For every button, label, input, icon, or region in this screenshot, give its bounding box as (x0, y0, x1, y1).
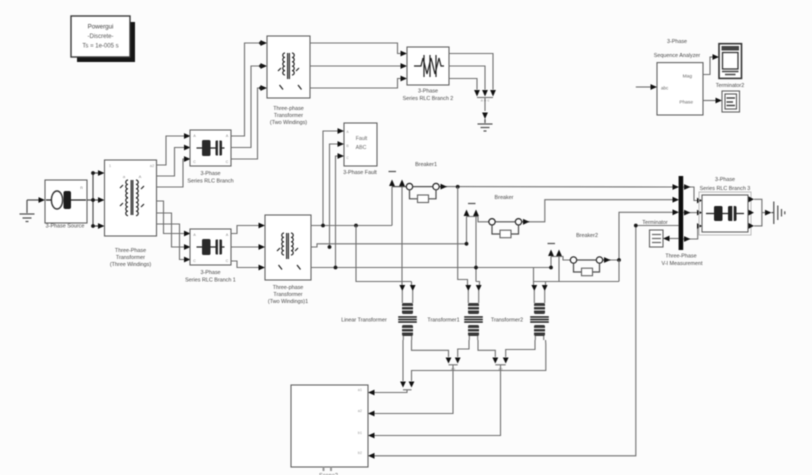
svg-text:(Two Windings): (Two Windings) (270, 120, 307, 126)
wire transformer1 secondary (458, 340, 469, 357)
svg-text:3-Phase: 3-Phase (418, 89, 438, 95)
svg-text:Breaker2: Breaker2 (576, 233, 598, 239)
3-phase fault block (344, 123, 377, 166)
svg-text:Powergui: Powergui (88, 24, 114, 31)
wire transformer to RLC branch 2 (310, 43, 401, 54)
node pair 1 (446, 358, 452, 364)
svg-text:C: C (193, 259, 196, 263)
svg-text:Transformer2: Transformer2 (491, 318, 523, 324)
wire analyzer input (636, 86, 651, 88)
svg-text:(Three Windings): (Three Windings) (110, 262, 152, 268)
wire phase taps to transformer primaries (356, 226, 412, 282)
svg-text:C: C (226, 259, 229, 263)
svg-text:Transformer: Transformer (116, 255, 145, 261)
svg-text:C: C (193, 160, 196, 164)
wire transformer2 secondary (506, 340, 535, 357)
wire phase B (311, 244, 467, 247)
transformer1 (468, 291, 478, 304)
svg-text:a2: a2 (358, 409, 362, 413)
display block (722, 91, 740, 112)
svg-text:a1: a1 (358, 388, 362, 392)
powergui block shadow (77, 22, 135, 62)
svg-text:Mag: Mag (683, 74, 693, 80)
linear transformer (402, 291, 412, 304)
wire transformer to RLC branch 1 (157, 201, 185, 234)
svg-text:3-Phase Source: 3-Phase Source (46, 224, 85, 230)
node pair 3 (400, 382, 406, 388)
svg-text:Ts = 1e-005 s: Ts = 1e-005 s (82, 44, 118, 50)
svg-text:3-Phase: 3-Phase (200, 171, 220, 177)
svg-text:abc: abc (661, 86, 669, 91)
svg-text:A: A (226, 233, 229, 237)
wire to port 4 (374, 226, 636, 456)
wire bus to terminator (670, 238, 679, 240)
wire RLC branch 1 to transformer 1 (231, 226, 259, 234)
svg-text:Three-Phase: Three-Phase (115, 248, 146, 254)
svg-text:Series RLC Branch 2: Series RLC Branch 2 (403, 96, 454, 102)
svg-text:3-Phase: 3-Phase (715, 177, 735, 183)
3-phase source block (45, 180, 87, 223)
svg-text:ABC: ABC (356, 145, 367, 151)
svg-text:Series RLC Branch: Series RLC Branch (187, 179, 233, 185)
svg-text:Transformer: Transformer (274, 113, 303, 119)
svg-text:b2: b2 (358, 451, 362, 455)
svg-text:-Discrete-: -Discrete- (87, 34, 113, 40)
subsystem block (291, 385, 368, 467)
wire breaker2 to bus (611, 212, 674, 260)
svg-text:(Two Windings)1: (Two Windings)1 (268, 299, 308, 305)
three-phase transformer (two windings) block (267, 36, 310, 98)
wire ground to source (27, 199, 39, 201)
wire bus to RLC branch 3 (683, 187, 698, 201)
svg-text:3-Phase Fault: 3-Phase Fault (343, 170, 377, 176)
svg-text:A: A (193, 134, 196, 138)
wire linear transformer secondary (402, 340, 404, 381)
transformer2 (534, 291, 544, 304)
svg-text:Three-phase: Three-phase (273, 285, 304, 291)
powergui block (71, 16, 130, 57)
svg-text:3-Phase: 3-Phase (667, 39, 687, 45)
svg-text:C: C (226, 160, 229, 164)
svg-text:Breaker: Breaker (495, 195, 514, 201)
wire RLC branch 2 to ground (449, 54, 493, 90)
wire RLC3 to ground (749, 196, 755, 202)
svg-text:Linear Transformer: Linear Transformer (341, 318, 387, 324)
wire fault taps (323, 131, 338, 226)
svg-text:Transformer1: Transformer1 (427, 318, 459, 324)
scope block (719, 44, 742, 79)
svg-text:A: A (226, 134, 229, 138)
svg-text:A: A (193, 233, 196, 237)
wire RLC branch to two-winding transformer (231, 43, 261, 136)
svg-text:Three-Phase: Three-Phase (665, 254, 696, 260)
svg-text:3-Phase: 3-Phase (200, 270, 220, 276)
wire breaker to bus (530, 200, 674, 222)
3-phase series RLC branch block (190, 130, 231, 166)
svg-text:Fault: Fault (356, 136, 368, 142)
three-phase V-I measurement bus (679, 176, 684, 250)
wire phase C (311, 267, 551, 269)
svg-text:Sequence Analyzer: Sequence Analyzer (654, 53, 701, 59)
three-phase transformer (two windings)1 block (265, 215, 311, 280)
svg-text:b1: b1 (358, 431, 362, 435)
svg-text:Terminator2: Terminator2 (716, 83, 744, 89)
node pair 2 (492, 358, 498, 364)
svg-text:Breaker1: Breaker1 (415, 162, 437, 168)
svg-text:Series RLC Branch 1: Series RLC Branch 1 (185, 278, 236, 284)
three-phase transformer (three windings) block (105, 160, 157, 236)
wire phase A (311, 225, 392, 227)
svg-text:Three-phase: Three-phase (273, 106, 304, 112)
svg-text:Transformer: Transformer (273, 292, 302, 298)
wire mag to scope (703, 57, 713, 75)
wire transformer to RLC branch (157, 136, 185, 165)
svg-text:A: A (139, 174, 142, 179)
3-phase series RLC branch 1 block (190, 229, 231, 265)
3-phase series RLC branch 2 block (407, 47, 449, 85)
wire bus tap to analyzer line (636, 225, 679, 227)
svg-text:V-I Measurement: V-I Measurement (661, 261, 703, 267)
wire source to transformer bus (87, 199, 93, 201)
ground G2 (478, 119, 493, 131)
wire phase to terminator2 (703, 100, 716, 102)
wire breaker1 to bus (447, 186, 674, 188)
ground G1 (20, 200, 35, 222)
svg-text:Series RLC Branch 3: Series RLC Branch 3 (700, 186, 751, 192)
ground G3 (772, 202, 785, 225)
svg-text:Phase: Phase (679, 100, 693, 106)
svg-text:a2: a2 (150, 163, 155, 168)
